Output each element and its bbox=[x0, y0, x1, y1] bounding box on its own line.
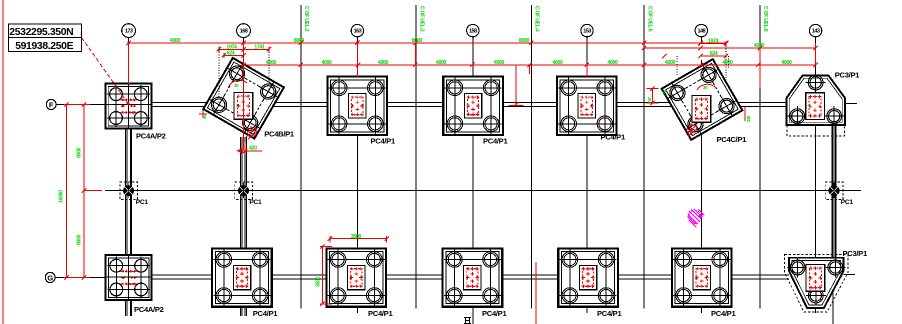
svg-text:168: 168 bbox=[240, 29, 248, 35]
dimension 1974/1741 above PC4B bbox=[217, 47, 271, 53]
red tick left end of middle beam bbox=[95, 190, 102, 192]
section line 2 bbox=[415, 5, 417, 309]
svg-text:4000: 4000 bbox=[781, 60, 792, 66]
dimension 624 above PC4B bbox=[222, 53, 246, 58]
pile cap PC1 col2 bbox=[235, 182, 253, 200]
svg-text:8000: 8000 bbox=[77, 147, 83, 158]
extension dotted lines PC4C bbox=[677, 43, 729, 80]
section line 1 bbox=[300, 5, 302, 309]
pile cap PC4A/P2 top row col1 bbox=[105, 84, 151, 129]
svg-text:143: 143 bbox=[812, 29, 820, 35]
svg-text:2532295.350N: 2532295.350N bbox=[9, 27, 73, 38]
grid line column 153 bbox=[586, 37, 588, 313]
dimension 16000 left bbox=[64, 102, 68, 279]
pile cap PC4/P1 bottom row col2 bbox=[212, 248, 272, 306]
coordinate box 591938.250E bbox=[8, 37, 81, 52]
grid line column 148 bbox=[700, 37, 702, 313]
pile cap PC4/P1 bottom row col6 bbox=[672, 248, 732, 306]
red vertical below beam center bbox=[535, 262, 537, 324]
dimension line near PC4C tier bbox=[642, 46, 818, 50]
row line through cap1 top bbox=[105, 104, 151, 106]
column of PC3/P1 top bbox=[806, 93, 825, 120]
svg-text:4000: 4000 bbox=[378, 60, 389, 66]
red drop col7 bbox=[815, 43, 817, 65]
section line 4 bbox=[643, 5, 645, 309]
grid bubble G bbox=[45, 272, 106, 282]
red drop section5 bbox=[759, 48, 761, 88]
svg-text:4000: 4000 bbox=[665, 60, 676, 66]
svg-text:C OF UEL-5: C OF UEL-5 bbox=[646, 6, 652, 32]
dimension 8000/8000 left bbox=[64, 102, 100, 279]
svg-text:158: 158 bbox=[469, 29, 477, 35]
svg-text:PC4/P1: PC4/P1 bbox=[371, 137, 396, 146]
grid line column 173 bbox=[128, 37, 130, 129]
wire: grade beam row F (double line) bbox=[151, 102, 787, 106]
wire stub right of top PC3 bbox=[845, 102, 857, 104]
grid line column 163 bbox=[356, 37, 358, 313]
wire stub right of bottom PC3 bbox=[844, 274, 856, 276]
magenta hatched marker bbox=[688, 209, 705, 228]
wire: grade beam row G (double line) bbox=[150, 275, 789, 279]
wire: vertical beam column 2 bbox=[240, 137, 246, 316]
wire: middle tie-beam line bbox=[105, 190, 861, 192]
svg-text:173: 173 bbox=[125, 29, 133, 35]
svg-text:4000: 4000 bbox=[321, 60, 332, 66]
pile cap PC4A/P2 bottom row col1 bbox=[106, 255, 152, 300]
svg-text:4000: 4000 bbox=[266, 60, 277, 66]
dimension line top tier 1 bbox=[126, 41, 728, 45]
red marks PC4C left bbox=[646, 87, 658, 106]
red grid drop col1 bbox=[128, 43, 130, 84]
coordinate box 2532295.350N bbox=[8, 24, 81, 38]
svg-text:PC4B/P1: PC4B/P1 bbox=[264, 130, 295, 139]
svg-text:PC4/P1: PC4/P1 bbox=[368, 309, 393, 318]
column of PC4B/P1 bbox=[234, 92, 253, 119]
grid bubble 168 bbox=[237, 24, 251, 38]
svg-text:4000: 4000 bbox=[754, 43, 765, 49]
svg-text:PC3/P1: PC3/P1 bbox=[843, 249, 868, 258]
svg-text:153: 153 bbox=[583, 29, 591, 35]
dimension 3500 above bottom cap col3 bbox=[328, 236, 389, 243]
column of PC3/P1 bottom bbox=[806, 265, 825, 292]
svg-text:8000: 8000 bbox=[412, 38, 423, 44]
column of PC4C/P1 bbox=[692, 95, 711, 122]
svg-text:4000: 4000 bbox=[170, 38, 181, 44]
red drop section2 bbox=[415, 43, 417, 65]
svg-text:4000: 4000 bbox=[494, 60, 505, 66]
svg-text:3500: 3500 bbox=[316, 276, 322, 287]
svg-text:PC1: PC1 bbox=[136, 199, 149, 206]
wire: vertical beam right column bbox=[832, 125, 836, 258]
svg-text:F: F bbox=[49, 100, 54, 109]
dimension 1974 above PC4C bbox=[698, 41, 728, 46]
svg-text:C OF UEL-3: C OF UEL-3 bbox=[418, 6, 424, 32]
pile cap PC4B/P1 rotated, top row col2 bbox=[203, 58, 284, 139]
dimension 3500 left of bottom cap col3 bbox=[320, 244, 332, 306]
svg-text:16000: 16000 bbox=[59, 190, 65, 203]
svg-text:PC4A/P2: PC4A/P2 bbox=[134, 305, 164, 314]
angle arc PC4C bbox=[697, 84, 716, 90]
svg-text:PC4C/P1: PC4C/P1 bbox=[717, 135, 748, 144]
svg-text:624: 624 bbox=[710, 51, 718, 57]
svg-text:3500: 3500 bbox=[351, 234, 362, 240]
red drop col5 bbox=[586, 65, 588, 77]
grid bubble 158 bbox=[467, 24, 479, 36]
svg-text:8000: 8000 bbox=[294, 38, 305, 44]
svg-text:348: 348 bbox=[746, 115, 751, 122]
svg-text:8000: 8000 bbox=[519, 38, 530, 44]
svg-text:PC4/P1: PC4/P1 bbox=[601, 133, 626, 142]
slope mark PC4C bbox=[686, 123, 697, 136]
pile cap PC4/P1 bottom row col4 bbox=[443, 248, 503, 306]
svg-text:G: G bbox=[47, 273, 53, 282]
pile cap PC4/P1 top row col4 bbox=[443, 77, 503, 135]
svg-text:4000: 4000 bbox=[552, 60, 563, 66]
wire: vertical beam column 1 bbox=[126, 129, 132, 316]
grid line column 158 bbox=[472, 37, 474, 324]
grid line column 168 bbox=[243, 37, 245, 137]
sheet border line (red, left edge) bbox=[2, 0, 4, 324]
dimension line top tier 2 bbox=[241, 63, 817, 67]
svg-text:PC1: PC1 bbox=[249, 199, 262, 206]
pile cap PC1 col1 bbox=[120, 182, 138, 200]
svg-text:C OF UEL-2: C OF UEL-2 bbox=[303, 6, 309, 32]
svg-text:591938.250E: 591938.250E bbox=[15, 41, 73, 52]
dimension 624/4004 above PC4C bbox=[662, 54, 728, 58]
grid line column 143 bbox=[815, 37, 817, 313]
pile cap PC4/P1 bottom row col5 bbox=[558, 248, 618, 306]
svg-text:1974: 1974 bbox=[226, 44, 237, 50]
pile cap PC3/P1 top row col7 bbox=[787, 73, 846, 137]
svg-text:1974: 1974 bbox=[708, 38, 719, 44]
pile cap PC4/P1 top row col5 bbox=[557, 77, 617, 135]
svg-text:PC4/P1: PC4/P1 bbox=[482, 309, 507, 318]
svg-text:C OF UEL-6: C OF UEL-6 bbox=[762, 6, 768, 32]
svg-text:747: 747 bbox=[647, 96, 652, 103]
grid bubble 153 bbox=[581, 24, 593, 36]
section line 3 bbox=[530, 5, 532, 309]
svg-text:PC4/P1: PC4/P1 bbox=[711, 309, 736, 318]
svg-text:PC4A/P2: PC4A/P2 bbox=[136, 131, 166, 140]
red detail dim near beam col4 bbox=[509, 65, 530, 107]
leader line from coordinate box bbox=[82, 38, 128, 103]
svg-text:148: 148 bbox=[698, 29, 706, 35]
svg-text:PC1: PC1 bbox=[841, 199, 854, 206]
svg-text:420: 420 bbox=[249, 145, 257, 151]
dimension 420 below PC4B bbox=[238, 142, 262, 153]
pile cap PC3/P1 bottom row col7 bbox=[785, 255, 849, 313]
svg-text:PC4/P1: PC4/P1 bbox=[253, 309, 278, 318]
grid bubble 173 bbox=[122, 24, 136, 38]
extension dotted lines PC4B bbox=[219, 49, 269, 103]
svg-text:PC4/P1: PC4/P1 bbox=[597, 309, 622, 318]
section line 5 bbox=[759, 5, 761, 309]
svg-text:4000: 4000 bbox=[436, 60, 447, 66]
pile cap PC4/P1 top row col3 bbox=[327, 77, 387, 135]
section mark H at bottom bbox=[464, 318, 471, 324]
grid bubble 148 bbox=[695, 24, 707, 36]
slope mark PC4B bbox=[246, 126, 257, 139]
pile cap PC1 right bbox=[825, 182, 843, 200]
svg-text:163: 163 bbox=[354, 29, 362, 35]
grid bubble F bbox=[46, 99, 105, 109]
svg-text:8000: 8000 bbox=[77, 234, 83, 245]
grid bubble 163 bbox=[351, 24, 363, 36]
pile cap PC4/P1 bottom row col3 bbox=[326, 248, 386, 306]
angle arc PC4B bbox=[228, 80, 247, 88]
svg-text:C OF UEL-4: C OF UEL-4 bbox=[534, 6, 540, 32]
red marks PC4B local bbox=[199, 110, 207, 118]
grid bubble 143 bbox=[809, 24, 821, 36]
svg-text:PC4/P1: PC4/P1 bbox=[483, 137, 508, 146]
red grid drop col2 bbox=[243, 43, 245, 150]
svg-text:4000: 4000 bbox=[607, 60, 618, 66]
svg-text:624: 624 bbox=[227, 51, 235, 57]
svg-text:1741: 1741 bbox=[254, 44, 265, 50]
red grid drop col3 bbox=[356, 43, 358, 77]
pile cap PC4C/P1 rotated, top row col6 bbox=[662, 59, 743, 140]
red marks PC4C right bbox=[744, 107, 746, 121]
svg-text:4000: 4000 bbox=[722, 60, 733, 66]
wire below bottom PC3 bbox=[832, 293, 834, 324]
svg-text:PC3/P1: PC3/P1 bbox=[835, 71, 860, 80]
